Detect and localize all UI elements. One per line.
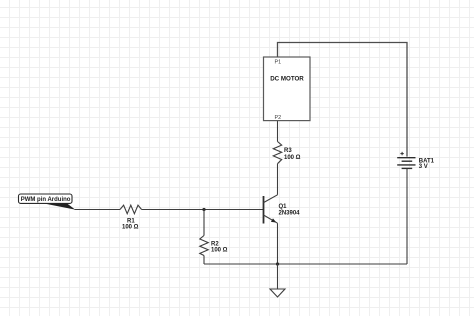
svg-text:100 Ω: 100 Ω [211, 248, 228, 254]
svg-text:P2: P2 [275, 115, 282, 121]
junction node at R2 top [202, 208, 205, 211]
wire: R2 to bottom rail [203, 256, 205, 265]
wire: junction to ground symbol [277, 264, 279, 289]
wire: R1 to Q1 base [142, 209, 264, 211]
junction node at emitter/ground [276, 262, 279, 265]
battery BAT1 [397, 152, 415, 169]
wire: bottom ground rail [204, 263, 407, 265]
resistor R3 [273, 142, 281, 164]
svg-text:3 V: 3 V [419, 164, 428, 170]
resistor R2 [200, 236, 208, 256]
svg-text:R2: R2 [211, 241, 219, 247]
wire: flag to R1 [75, 209, 121, 211]
svg-text:R3: R3 [284, 148, 292, 154]
net flag PWM pin Arduino [19, 194, 76, 210]
svg-text:R1: R1 [127, 218, 135, 224]
DC motor module box [264, 57, 311, 121]
svg-text:DC MOTOR: DC MOTOR [270, 76, 304, 83]
wire: DC motor P2 down to R3 [277, 121, 279, 142]
svg-text:P1: P1 [275, 60, 282, 66]
svg-text:100 Ω: 100 Ω [284, 155, 301, 161]
svg-text:Q1: Q1 [279, 204, 288, 210]
wire: junction down to R2 [203, 210, 205, 236]
ground [270, 289, 285, 297]
wire: collector up to R3 [277, 164, 279, 195]
svg-text:2N3904: 2N3904 [279, 211, 301, 217]
resistor R1 [120, 205, 142, 214]
svg-text:PWM pin Arduino: PWM pin Arduino [21, 197, 71, 203]
wire: emitter down to rail [277, 223, 279, 264]
svg-text:100 Ω: 100 Ω [122, 225, 139, 231]
wire: battery negative down to rail [406, 168, 408, 264]
wire: DC motor P1 up and right to battery [278, 43, 408, 157]
transistor Q1 [264, 195, 278, 224]
